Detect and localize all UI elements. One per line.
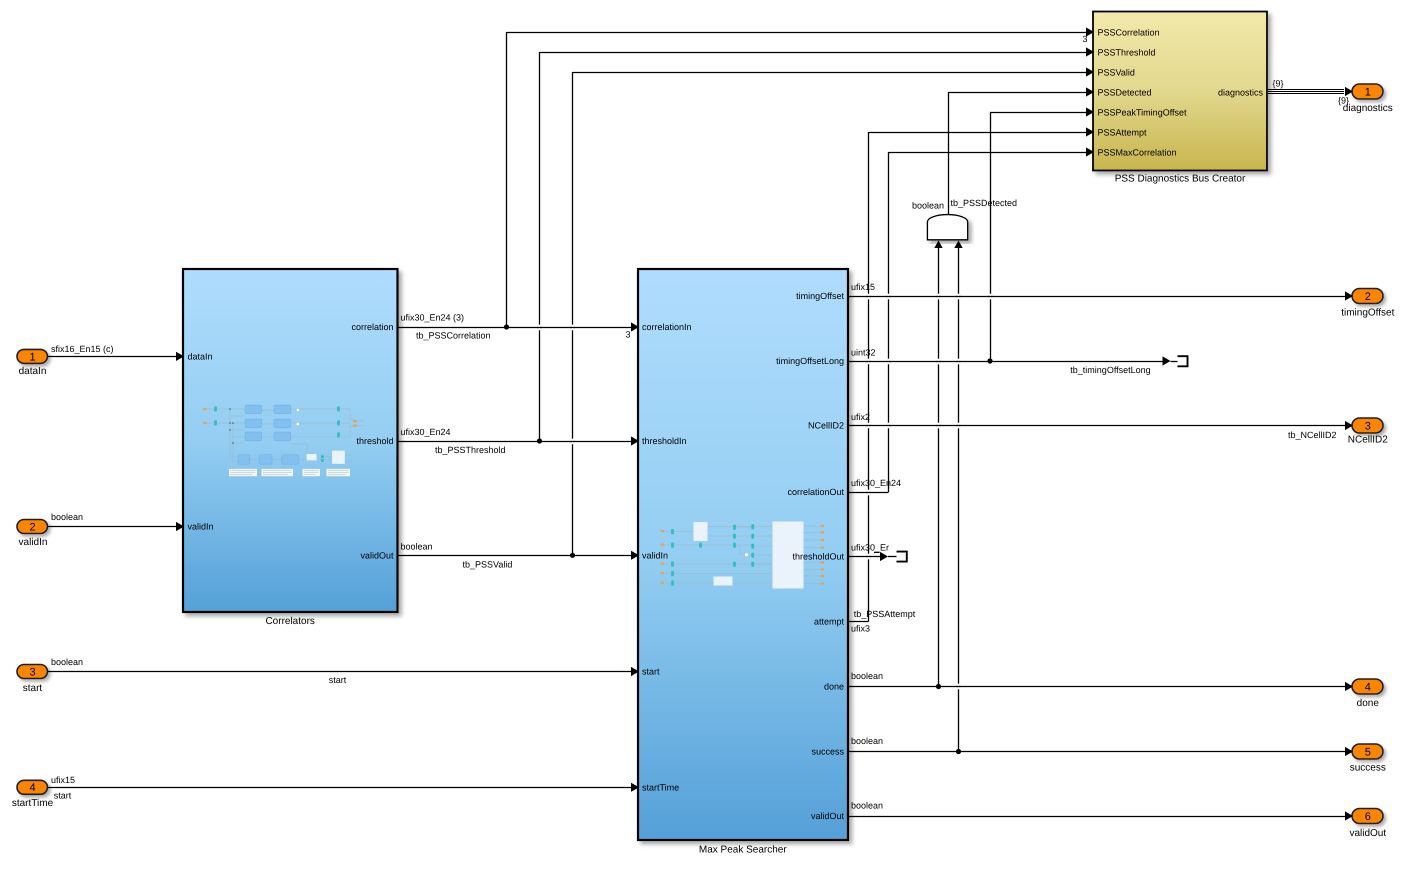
svg-text:ufix15: ufix15 <box>51 775 75 785</box>
subsystem Max Peak Searcher <box>638 269 848 840</box>
svg-text:PSSDetected: PSSDetected <box>1098 87 1152 97</box>
svg-text:thresholdOut: thresholdOut <box>792 552 844 562</box>
inport 2 validIn <box>17 520 48 534</box>
svg-text:1: 1 <box>30 351 36 363</box>
svg-text:diagnostics: diagnostics <box>1343 103 1393 114</box>
svg-text:done: done <box>1357 698 1380 709</box>
wire thresholdOut to terminator <box>848 543 897 561</box>
svg-text:1: 1 <box>1365 87 1371 99</box>
wire dataIn to Correlators <box>48 344 185 361</box>
svg-text:tb_timingOffsetLong: tb_timingOffsetLong <box>1070 365 1150 375</box>
svg-text:validIn: validIn <box>19 537 48 548</box>
svg-text:startTime: startTime <box>12 798 54 809</box>
svg-text:validOut: validOut <box>811 811 845 821</box>
svg-text:boolean: boolean <box>51 657 83 667</box>
svg-text:boolean: boolean <box>851 801 883 811</box>
svg-text:dataIn: dataIn <box>188 352 213 362</box>
svg-text:thresholdIn: thresholdIn <box>642 436 687 446</box>
svg-text:boolean: boolean <box>912 200 944 210</box>
svg-text:6: 6 <box>1365 811 1371 823</box>
Bus Creator PSS Diagnostics <box>1093 12 1267 171</box>
svg-text:NCellID2: NCellID2 <box>808 421 844 431</box>
wire validIn to Correlators <box>48 512 185 531</box>
svg-text:attempt: attempt <box>814 617 845 627</box>
Correlators port labels <box>188 322 394 560</box>
wire timingOffsetLong to terminator and PSSPeakTimingOffset <box>848 107 1178 374</box>
svg-text:PSSPeakTimingOffset: PSSPeakTimingOffset <box>1098 107 1188 117</box>
svg-text:correlationOut: correlationOut <box>787 487 844 497</box>
svg-text:4: 4 <box>1365 682 1371 694</box>
terminator for thresholdOut <box>897 552 907 562</box>
svg-text:PSSThreshold: PSSThreshold <box>1098 47 1156 57</box>
svg-text:PSSAttempt: PSSAttempt <box>1098 127 1148 137</box>
wire threshold: Correlators to Max Peak Searcher and PSSThreshold <box>398 47 1095 454</box>
wire correlationOut to PSSMaxCorrelation <box>848 147 1094 492</box>
svg-text:{9}: {9} <box>1273 78 1284 88</box>
outport 1 diagnostics <box>1352 84 1383 99</box>
inport 1 dataIn <box>17 349 48 363</box>
svg-text:3: 3 <box>30 666 36 678</box>
svg-text:success: success <box>811 747 844 757</box>
svg-text:timingOffset: timingOffset <box>1341 308 1394 319</box>
svg-text:diagnostics: diagnostics <box>1218 88 1264 98</box>
outport 4 done <box>1352 679 1383 694</box>
svg-text:tb_PSSValid: tb_PSSValid <box>463 560 513 570</box>
svg-text:ufix15: ufix15 <box>851 282 875 292</box>
svg-text:boolean: boolean <box>851 736 883 746</box>
svg-text:validIn: validIn <box>188 522 214 532</box>
svg-text:Correlators: Correlators <box>265 616 314 627</box>
svg-text:validOut: validOut <box>360 551 394 561</box>
svg-text:boolean: boolean <box>401 542 433 552</box>
wire done to outport 4 and AND gate <box>848 241 1353 692</box>
svg-text:correlationIn: correlationIn <box>642 322 692 332</box>
subsystem Correlators <box>183 269 398 612</box>
inport 4 startTime <box>17 780 48 794</box>
svg-text:ufix30_En24: ufix30_En24 <box>851 478 901 488</box>
svg-text:start: start <box>642 667 660 677</box>
svg-text:dataIn: dataIn <box>19 366 47 377</box>
svg-text:ufix30_Er: ufix30_Er <box>851 543 889 553</box>
svg-text:5: 5 <box>1365 747 1371 759</box>
svg-text:success: success <box>1350 763 1386 774</box>
wire attempt to PSSAttempt <box>848 127 1094 633</box>
svg-text:ufix3: ufix3 <box>851 623 870 633</box>
outport 3 NCellID2 <box>1352 418 1383 433</box>
inport 3 start <box>17 665 48 679</box>
svg-text:start: start <box>23 683 43 694</box>
wire AND output to PSSDetected <box>948 87 1094 214</box>
svg-text:ufix2: ufix2 <box>851 412 870 422</box>
wire timingOffset to outport 2 <box>848 282 1353 300</box>
svg-text:sfix16_En15 (c): sfix16_En15 (c) <box>51 344 114 354</box>
svg-text:uint32: uint32 <box>851 347 876 357</box>
svg-text:Max Peak Searcher: Max Peak Searcher <box>699 845 787 856</box>
svg-text:PSSCorrelation: PSSCorrelation <box>1098 27 1160 37</box>
bus wire diagnostics to outport 1 <box>1268 78 1353 105</box>
wire start to Max Peak Searcher <box>48 657 640 685</box>
wire success to outport 5 and AND gate <box>848 241 1353 757</box>
svg-text:boolean: boolean <box>851 671 883 681</box>
svg-text:4: 4 <box>30 782 36 794</box>
svg-text:ufix30_En24 (3): ufix30_En24 (3) <box>401 313 465 323</box>
svg-text:correlation: correlation <box>351 322 393 332</box>
svg-text:startTime: startTime <box>642 783 679 793</box>
svg-text:2: 2 <box>30 521 36 533</box>
outport 6 validOut <box>1352 809 1383 824</box>
svg-text:3: 3 <box>1082 34 1087 44</box>
Max Peak Searcher port labels <box>642 291 844 821</box>
wire correlation: Correlators to Max Peak Searcher and PSSCorrelation <box>398 27 1095 340</box>
svg-text:3: 3 <box>625 330 630 340</box>
svg-text:ufix30_En24: ufix30_En24 <box>401 427 451 437</box>
svg-text:NCellID2: NCellID2 <box>1348 435 1388 446</box>
svg-text:tb_PSSDetected: tb_PSSDetected <box>951 198 1018 208</box>
svg-text:validOut: validOut <box>1349 828 1386 839</box>
svg-text:tb_PSSThreshold: tb_PSSThreshold <box>435 445 506 455</box>
wire validOut: Correlators to Max Peak Searcher and PSSValid <box>398 67 1095 569</box>
svg-text:3: 3 <box>1365 421 1371 433</box>
AND gate logical operator <box>927 215 967 240</box>
outport 2 timingOffset <box>1352 289 1383 304</box>
svg-text:PSSMaxCorrelation: PSSMaxCorrelation <box>1098 147 1177 157</box>
Max Peak Searcher thumbnail contents <box>664 526 820 584</box>
svg-text:PSS Diagnostics Bus Creator: PSS Diagnostics Bus Creator <box>1115 174 1246 185</box>
svg-text:timingOffset: timingOffset <box>796 291 844 301</box>
svg-text:2: 2 <box>1365 291 1371 303</box>
svg-text:boolean: boolean <box>51 512 83 522</box>
Correlators thumbnail contents <box>205 409 364 461</box>
svg-text:validIn: validIn <box>642 551 668 561</box>
wire validOut to outport 6 <box>848 801 1353 821</box>
svg-text:tb_NCellID2: tb_NCellID2 <box>1288 430 1337 440</box>
outport 5 success <box>1352 744 1383 759</box>
svg-text:PSSValid: PSSValid <box>1098 67 1135 77</box>
svg-text:tb_PSSAttempt: tb_PSSAttempt <box>854 609 916 619</box>
wire startTime to Max Peak Searcher <box>48 775 640 801</box>
svg-text:threshold: threshold <box>356 436 393 446</box>
svg-text:start: start <box>54 791 72 801</box>
svg-text:done: done <box>824 682 844 692</box>
terminator for timingOffsetLong <box>1178 356 1188 366</box>
wire NCellID2 to outport 3 <box>848 412 1353 440</box>
svg-text:start: start <box>329 675 347 685</box>
svg-text:{9}: {9} <box>1338 96 1349 106</box>
svg-text:tb_PSSCorrelation: tb_PSSCorrelation <box>416 331 491 341</box>
wire crossing gaps <box>537 294 992 690</box>
svg-text:timingOffsetLong: timingOffsetLong <box>776 356 844 366</box>
